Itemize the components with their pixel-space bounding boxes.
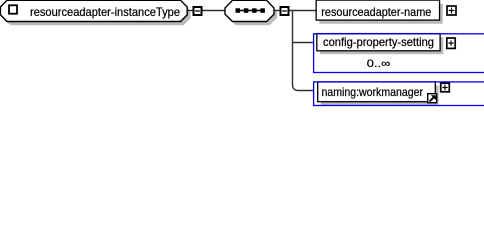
- element box config-property-setting: [317, 34, 440, 51]
- sequence dots: [236, 10, 265, 12]
- svg-text:resourceadapter-instanceType: resourceadapter-instanceType: [30, 5, 180, 19]
- svg-text:config-property-setting: config-property-setting: [323, 35, 434, 49]
- selection rect config-property-setting: [314, 34, 484, 73]
- sequence compositor: [225, 0, 274, 21]
- svg-text:resourceadapter-name: resourceadapter-name: [321, 5, 431, 19]
- element box naming:workmanager shadow: [321, 86, 439, 106]
- element box config-property-setting shadow: [320, 37, 443, 54]
- element box resourceadapter-name shadow: [319, 4, 442, 24]
- sequence compositor shadow: [228, 4, 277, 25]
- svg-text:0..∞: 0..∞: [367, 58, 391, 70]
- wire trunk with curve to naming:workmanager: [293, 11, 314, 91]
- expand button plus1: [447, 6, 456, 15]
- wire branch to config-property-setting: [293, 42, 314, 44]
- selection rect naming:workmanager: [314, 82, 484, 106]
- expand button plus3: [441, 83, 450, 92]
- collapse button minus1: [194, 7, 202, 15]
- element box resourceadapter-name: [316, 0, 439, 20]
- complexType icon: [9, 5, 17, 13]
- svg-text:naming:workmanager: naming:workmanager: [322, 85, 424, 99]
- wire octagon to minus1: [187, 10, 193, 12]
- element box naming:workmanager: [318, 82, 436, 102]
- complexType resourceadapter-instanceType shadow: [4, 4, 191, 25]
- complexType resourceadapter-instanceType: [0, 0, 187, 21]
- wire minus1 to sequence: [203, 10, 227, 12]
- reference arrow icon: [428, 94, 437, 103]
- expand button plus2: [447, 38, 455, 48]
- wire sequence to minus2: [274, 10, 281, 12]
- collapse button minus2: [281, 7, 289, 15]
- wire minus2 to resourceadapter-name: [290, 10, 317, 12]
